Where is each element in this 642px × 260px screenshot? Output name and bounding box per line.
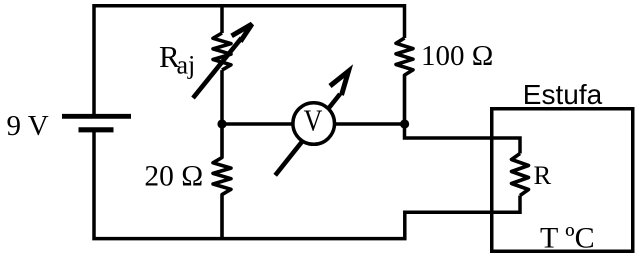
resistor Raj : adjustment arrow shaft (193, 38, 242, 98)
voltmeter U1 : body circle (293, 103, 335, 145)
svg-text:20 Ω: 20 Ω (144, 160, 203, 192)
wire: left rail + top rail + right drop to 100-ohm resistor (94, 6, 405, 115)
resistor R (thermistor in oven) : zigzag body (512, 154, 529, 196)
node A junction dot (217, 119, 226, 128)
voltmeter U1 : needle shaft (275, 94, 340, 175)
wire: bottom rail from battery, up-jog and into oven box to R bottom lead (94, 130, 520, 239)
wire: middle rail from node A to node B (through voltmeter position) (222, 122, 405, 126)
resistor Raj (adjustable) : top lead (220, 6, 224, 33)
svg-text:R: R (534, 160, 552, 190)
resistor 20 ohm : zigzag body with leads (node A to bottom rail) (213, 124, 231, 239)
wire: node B down, right into oven box, down to R top lead (405, 124, 521, 154)
battery B1 9 V : short plate (-) (79, 127, 114, 132)
resistor 100 ohm : zigzag body with lead down to node B (396, 38, 413, 124)
battery B1 9 V : long plate (+) (62, 114, 131, 119)
resistor Raj : bottom lead to node A (220, 70, 224, 124)
svg-text:9 V: 9 V (7, 110, 49, 142)
svg-text:Estufa: Estufa (523, 79, 603, 110)
svg-text:100 Ω: 100 Ω (421, 40, 493, 72)
oven enclosure box (Estufa) (492, 109, 633, 252)
svg-text:aj: aj (177, 51, 196, 80)
resistor Raj : zigzag body (213, 33, 231, 70)
resistor Raj : adjustment arrowhead (232, 24, 252, 42)
node B junction dot (400, 119, 409, 128)
voltmeter U1 : needle arrowhead (330, 71, 349, 95)
svg-text:T ºC: T ºC (540, 222, 595, 255)
svg-text:V: V (304, 102, 323, 137)
